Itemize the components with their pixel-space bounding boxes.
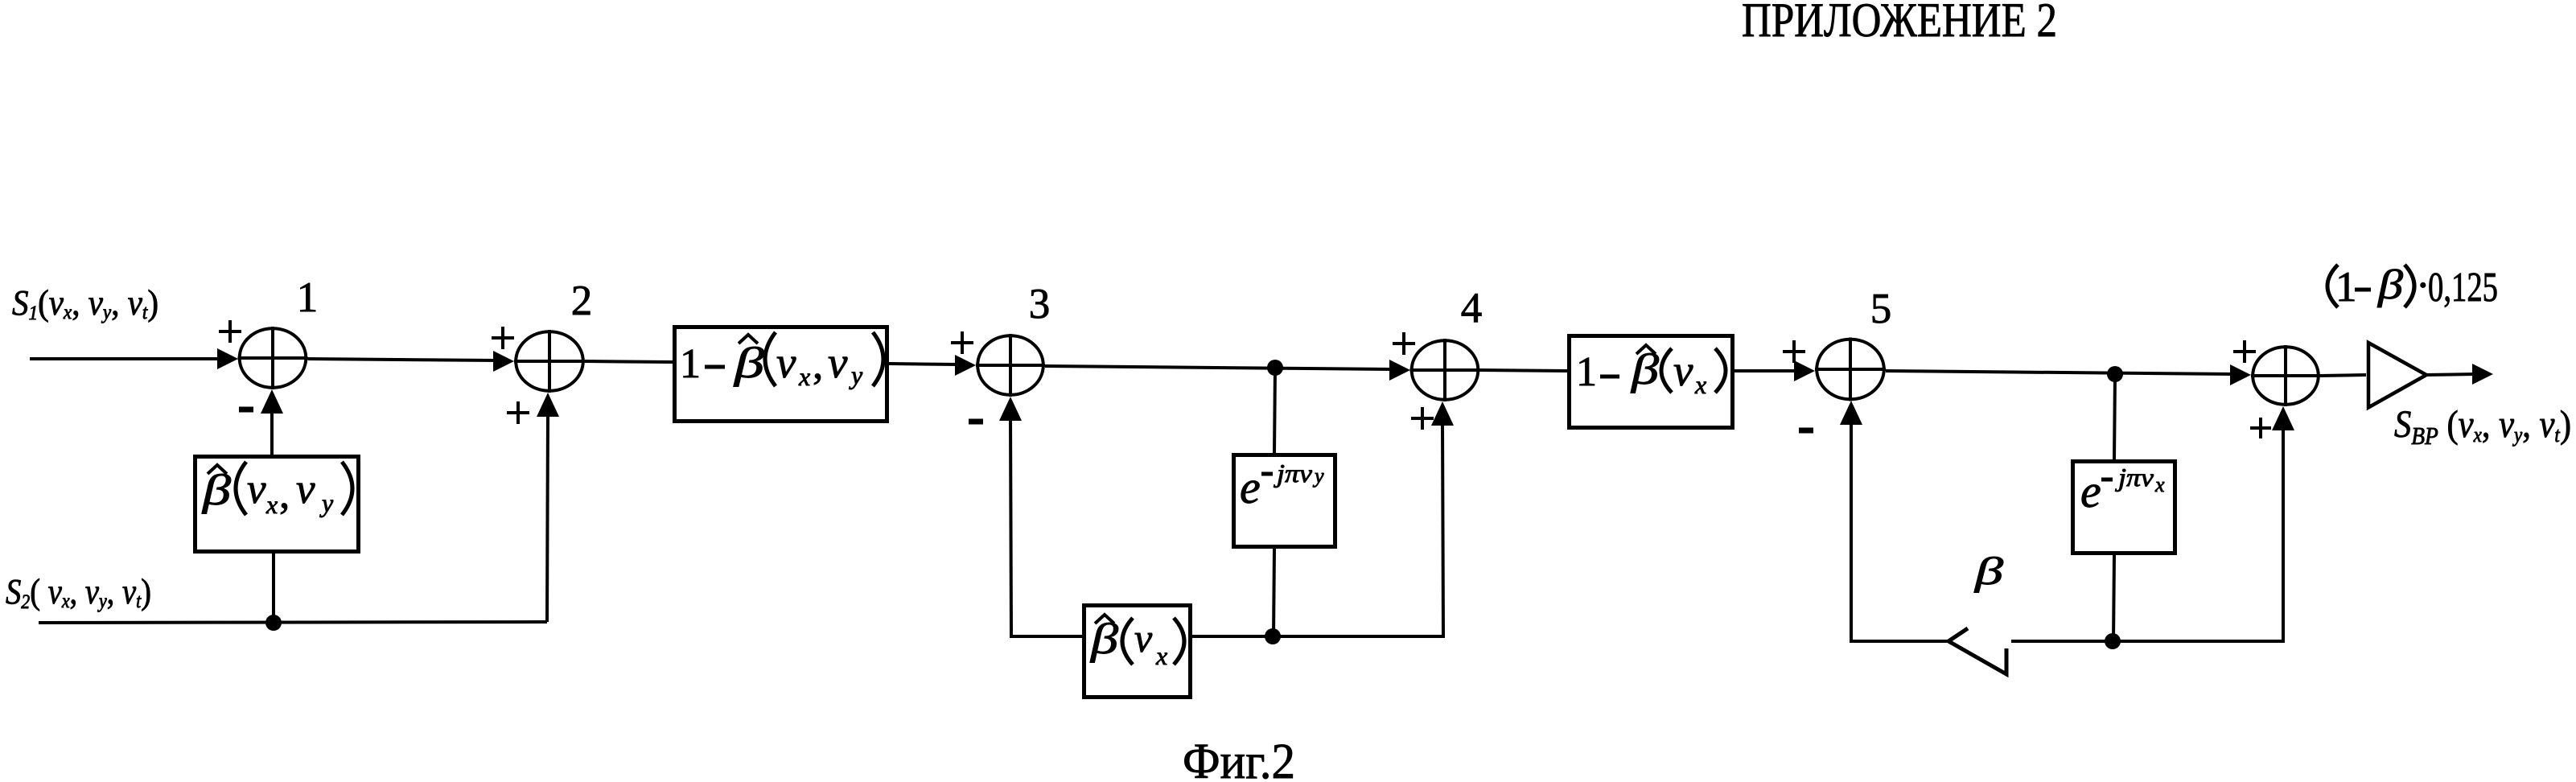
wire summer 2 to block b2 xyxy=(585,361,673,362)
block b5 (1 - beta(vx)) xyxy=(1570,336,1733,428)
svg-text:jπν: jπν xyxy=(2115,463,2154,492)
output arrow xyxy=(2472,364,2493,385)
label in b3: e^-j pi vy xyxy=(1240,459,1324,513)
amplifier triangle (1-beta)*0.125 xyxy=(2368,343,2426,408)
arrow from feedback into summer 5 xyxy=(1840,401,1862,425)
wire riser feedback to summer 5 xyxy=(1850,422,1853,641)
plus sign at summer 4 left input xyxy=(1393,332,1415,355)
svg-text:y: y xyxy=(319,488,334,517)
plus sign at summer 6 left input xyxy=(2233,340,2256,363)
arrow into summer 1 xyxy=(217,348,238,369)
svg-text:5: 5 xyxy=(1870,286,1892,332)
svg-text:1: 1 xyxy=(680,341,701,387)
label in b4: beta-hat(vx) xyxy=(1090,615,1184,670)
svg-text:e: e xyxy=(1240,461,1261,513)
plus sign at summer 5 left input xyxy=(1783,340,1805,363)
node dot on main line above e-box vy xyxy=(1267,360,1283,376)
summing junction 1 xyxy=(240,328,307,388)
wire b1 bottom to S2 line xyxy=(272,554,275,623)
block b2 (1 - beta(vx,vy)) xyxy=(675,327,887,422)
wire S2 riser to summer 2 xyxy=(547,414,548,622)
wire S1 input xyxy=(30,357,220,360)
svg-text:y: y xyxy=(1312,464,1324,488)
svg-text:e: e xyxy=(2080,465,2101,517)
block b3 e^-j pi vy xyxy=(1234,455,1335,547)
arrow into summer 4 xyxy=(1389,360,1410,381)
arrow into summer 5 xyxy=(1794,360,1815,381)
wire feedback dot to b4 right xyxy=(1192,635,1273,638)
node dot on feedback line below e-box vx xyxy=(2105,633,2121,649)
arrow from feedback into summer 6 xyxy=(2272,406,2294,430)
plus sign at summer 6 bottom input xyxy=(2250,418,2271,438)
wire feedback dot left to open arrow xyxy=(2011,640,2113,643)
wire main dot down to e-box vx xyxy=(2114,374,2115,459)
plus sign at summer 2 left input xyxy=(492,327,514,349)
svg-text:1: 1 xyxy=(2335,264,2357,311)
plus sign at summer 2 bottom input xyxy=(507,401,529,424)
label in b1: beta-hat(vx,vy) xyxy=(202,462,352,519)
svg-text:ν: ν xyxy=(247,466,266,512)
svg-text:ν: ν xyxy=(828,338,848,387)
wire b2 to summer 3 xyxy=(889,364,958,364)
minus sign at summer 3 bottom input xyxy=(969,419,983,425)
svg-text:x: x xyxy=(1155,641,1167,670)
svg-text:1: 1 xyxy=(297,274,319,321)
wire b4 left to riser xyxy=(1010,635,1082,638)
svg-text:ПРИЛОЖЕНИЕ 2: ПРИЛОЖЕНИЕ 2 xyxy=(1742,0,2057,47)
svg-text:β: β xyxy=(1974,549,2004,593)
arrow into summer 6 xyxy=(2230,364,2251,385)
open arrowhead on feedback wire xyxy=(1948,628,2006,674)
svg-text:y: y xyxy=(849,360,863,389)
node dot on feedback line below e-box vy xyxy=(1265,628,1281,644)
minus sign at summer 1 bottom input xyxy=(239,407,253,413)
wire main dot down to e-box vy xyxy=(1274,368,1275,453)
wire riser feedback to summer 4 xyxy=(1442,422,1443,636)
svg-text:ν: ν xyxy=(1673,346,1693,395)
summing junction 4 xyxy=(1412,340,1479,400)
wire summer 5 to summer 6 xyxy=(1886,371,2234,374)
arrow from S2 wire into summer 2 xyxy=(537,393,559,417)
svg-text:,: , xyxy=(279,471,290,517)
summing junction 5 xyxy=(1817,340,1884,400)
node dot on S2 line xyxy=(265,615,282,631)
arrow from feedback into summer 4 xyxy=(1431,401,1454,426)
wire b1 top to summer 1 xyxy=(270,410,274,455)
wire e-box vx down to feedback line xyxy=(2113,555,2114,641)
wire summer 3 to summer 4 xyxy=(1045,366,1393,369)
gain label (1-beta)*0,125 xyxy=(2327,262,2498,311)
wire b5 to summer 5 xyxy=(1734,369,1797,372)
svg-text:ν: ν xyxy=(776,338,796,387)
output wire xyxy=(2425,374,2475,375)
svg-text:3: 3 xyxy=(1029,281,1051,327)
wire feedback dot to summer 4 riser xyxy=(1273,635,1445,638)
label in b6: e^-j pi vx xyxy=(2080,463,2165,517)
svg-text:x: x xyxy=(1694,370,1706,399)
block b1 beta(vx,vy) xyxy=(195,457,359,552)
node dot on main line above e-box vx xyxy=(2107,366,2123,382)
plus sign at summer 1 input xyxy=(219,320,241,343)
svg-text:Фиг.2: Фиг.2 xyxy=(1183,735,1295,782)
plus sign at summer 4 bottom input xyxy=(1411,407,1434,430)
svg-text:1: 1 xyxy=(1576,349,1597,395)
wire summer 1 to summer 2 xyxy=(308,359,497,360)
svg-text:0,125: 0,125 xyxy=(2428,265,2498,311)
svg-text:2: 2 xyxy=(571,278,593,324)
wire summer 6 to amplifier xyxy=(2320,375,2366,376)
summing junction 3 xyxy=(977,335,1043,395)
svg-text:,: , xyxy=(813,341,823,388)
wire riser from feedback into summer 3 xyxy=(1010,418,1011,636)
svg-text:β: β xyxy=(734,339,765,387)
arrow from b4 into summer 3 xyxy=(999,397,1022,421)
svg-text:x: x xyxy=(2154,473,2165,496)
svg-text:4: 4 xyxy=(1461,285,1483,331)
wire e-box vy down to feedback line xyxy=(1274,549,1274,636)
svg-text:x: x xyxy=(798,362,810,391)
svg-text:x: x xyxy=(265,490,278,519)
wire open arrow to summer 5 riser xyxy=(1850,640,1948,643)
svg-text:ν: ν xyxy=(1134,615,1153,661)
arrow into summer 3 xyxy=(955,355,976,376)
arrow from block b1 into summer 1 xyxy=(261,389,283,414)
wire S2 input line xyxy=(39,622,547,623)
plus sign at summer 3 left input xyxy=(951,331,973,354)
wire summer 4 to block b5 xyxy=(1480,370,1568,371)
minus sign at summer 5 bottom input xyxy=(1799,428,1813,434)
label in b2: 1 - beta-hat(vx,vy) xyxy=(680,332,883,391)
label in b5: 1 - beta-hat(vx) xyxy=(1576,345,1726,399)
summing junction 6 xyxy=(2253,347,2319,405)
svg-text:jπν: jπν xyxy=(1274,459,1313,488)
summing junction 2 xyxy=(516,331,583,391)
block b6 e^-j pi vx xyxy=(2073,462,2175,554)
svg-text:β: β xyxy=(2377,262,2403,308)
wire riser feedback to summer 6 xyxy=(2282,427,2285,641)
svg-text:ν: ν xyxy=(296,466,315,512)
arrow into summer 2 xyxy=(493,351,514,372)
block b4 beta(vx) xyxy=(1084,606,1191,698)
wire feedback dot right to summer 6 riser xyxy=(2113,640,2285,643)
